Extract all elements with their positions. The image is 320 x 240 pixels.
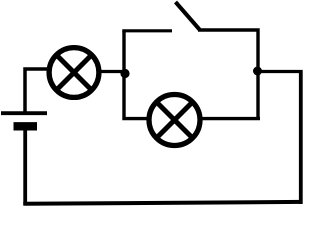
wire switch S1 to node B riser down to lamp L2 right lead (198, 30, 258, 119)
lamp L1 circle (49, 48, 99, 98)
lamp L2 circle (149, 95, 200, 146)
lamp L1 cross stroke 1 (57, 55, 92, 90)
wire bottom return rail (23, 202, 302, 204)
wire battery negative terminal down to bottom rail (23, 127, 27, 206)
wire node A riser up to switch fixed contact and down to lamp L2 (124, 31, 148, 119)
lamp L2 cross stroke 1 (157, 102, 193, 138)
wire lamp L2 right lead to node B riser (200, 117, 260, 120)
wire lamp L1 right lead to node A (99, 70, 126, 73)
wire battery positive terminal up and right to lamp L1 (25, 69, 49, 113)
wire node B to right rail (257, 70, 303, 73)
wire right rail down to bottom (299, 70, 303, 204)
battery B1 positive plate (long thin) (1, 111, 47, 115)
node B junction dot (253, 67, 262, 76)
switch S1 blade (open) (176, 2, 200, 30)
lamp L1 cross stroke 2 (57, 55, 92, 90)
node A junction dot (120, 69, 129, 78)
lamp L2 cross stroke 2 (157, 102, 193, 138)
battery B1 negative plate (short thick) (14, 122, 38, 130)
switch S1 fixed contact wire (122, 29, 172, 32)
